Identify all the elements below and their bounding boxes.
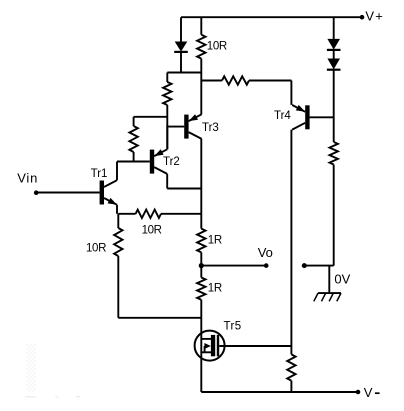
svg-text:Vo: Vo bbox=[258, 245, 273, 260]
svg-text:1R: 1R bbox=[208, 234, 222, 246]
svg-text:10R: 10R bbox=[142, 224, 162, 236]
svg-text:V: V bbox=[364, 385, 373, 400]
svg-text:1R: 1R bbox=[208, 283, 222, 295]
svg-text:Tr4: Tr4 bbox=[274, 110, 291, 122]
svg-text:Vin: Vin bbox=[17, 170, 38, 185]
svg-text:V+: V+ bbox=[365, 8, 384, 23]
svg-text:Tr2: Tr2 bbox=[163, 156, 180, 168]
svg-text:0V: 0V bbox=[334, 272, 350, 287]
svg-text:10R: 10R bbox=[86, 242, 106, 254]
svg-text:Tr1: Tr1 bbox=[91, 168, 108, 180]
svg-text:Tr3: Tr3 bbox=[202, 122, 219, 134]
svg-text:10R: 10R bbox=[207, 41, 227, 53]
svg-text:Tr5: Tr5 bbox=[224, 321, 242, 333]
